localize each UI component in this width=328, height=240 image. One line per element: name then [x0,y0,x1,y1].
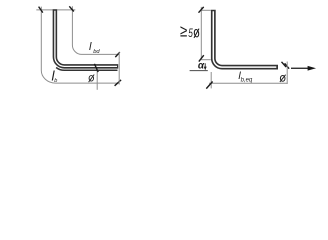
tick at l_bd dim right end [115,52,120,57]
tick at 5dia dim top [199,7,204,13]
svg-text:α: α [198,60,205,71]
tick at top dim right end [69,6,74,11]
aux dimension path for l_bd (right of bar, follows bend) [72,6,119,54]
diameter tick across bar [94,64,98,72]
tick at l_b,eq left end [206,82,212,89]
dimension line at bar top end [36,9,75,11]
extension line at bar end [118,52,120,84]
svg-text:l: l [89,41,92,53]
svg-text:5: 5 [188,26,193,40]
svg-text:bd: bd [93,49,100,55]
diameter symbol right [280,75,286,82]
diameter symbol [89,75,95,83]
angle reference line under alpha [190,70,208,72]
vertical dimension line for >=5dia [200,7,202,60]
break mark tick 2 at bar end [285,63,290,68]
tick at l_b dim right end [115,80,122,86]
extension line below diameter mark [96,71,98,90]
tick at top dim left end [39,7,43,13]
svg-text:≥: ≥ [180,22,187,41]
break mark tick 1 at bar end [282,62,287,67]
aux dimension path for l_b (left of bar, follows bend) [41,7,55,84]
svg-text:b: b [54,78,57,84]
extension line top (bar top end level) [201,9,211,11]
extension line at bar end [286,62,288,85]
svg-text:b,eq: b,eq [241,77,253,83]
l_b dimension line under bar [56,82,120,84]
force direction arrow [291,67,309,69]
angle arrow [204,63,206,67]
rebar (bent bar, double line) [55,9,118,66]
extension line bottom (bend start level) [201,59,211,61]
tick at 5dia dim bottom [199,55,204,61]
rebar (bent bar, double line) [213,10,278,67]
dimension line l_b,eq [209,82,287,84]
third line under bar (outer bend offset line) [56,68,117,71]
extension line below bend [210,72,212,88]
